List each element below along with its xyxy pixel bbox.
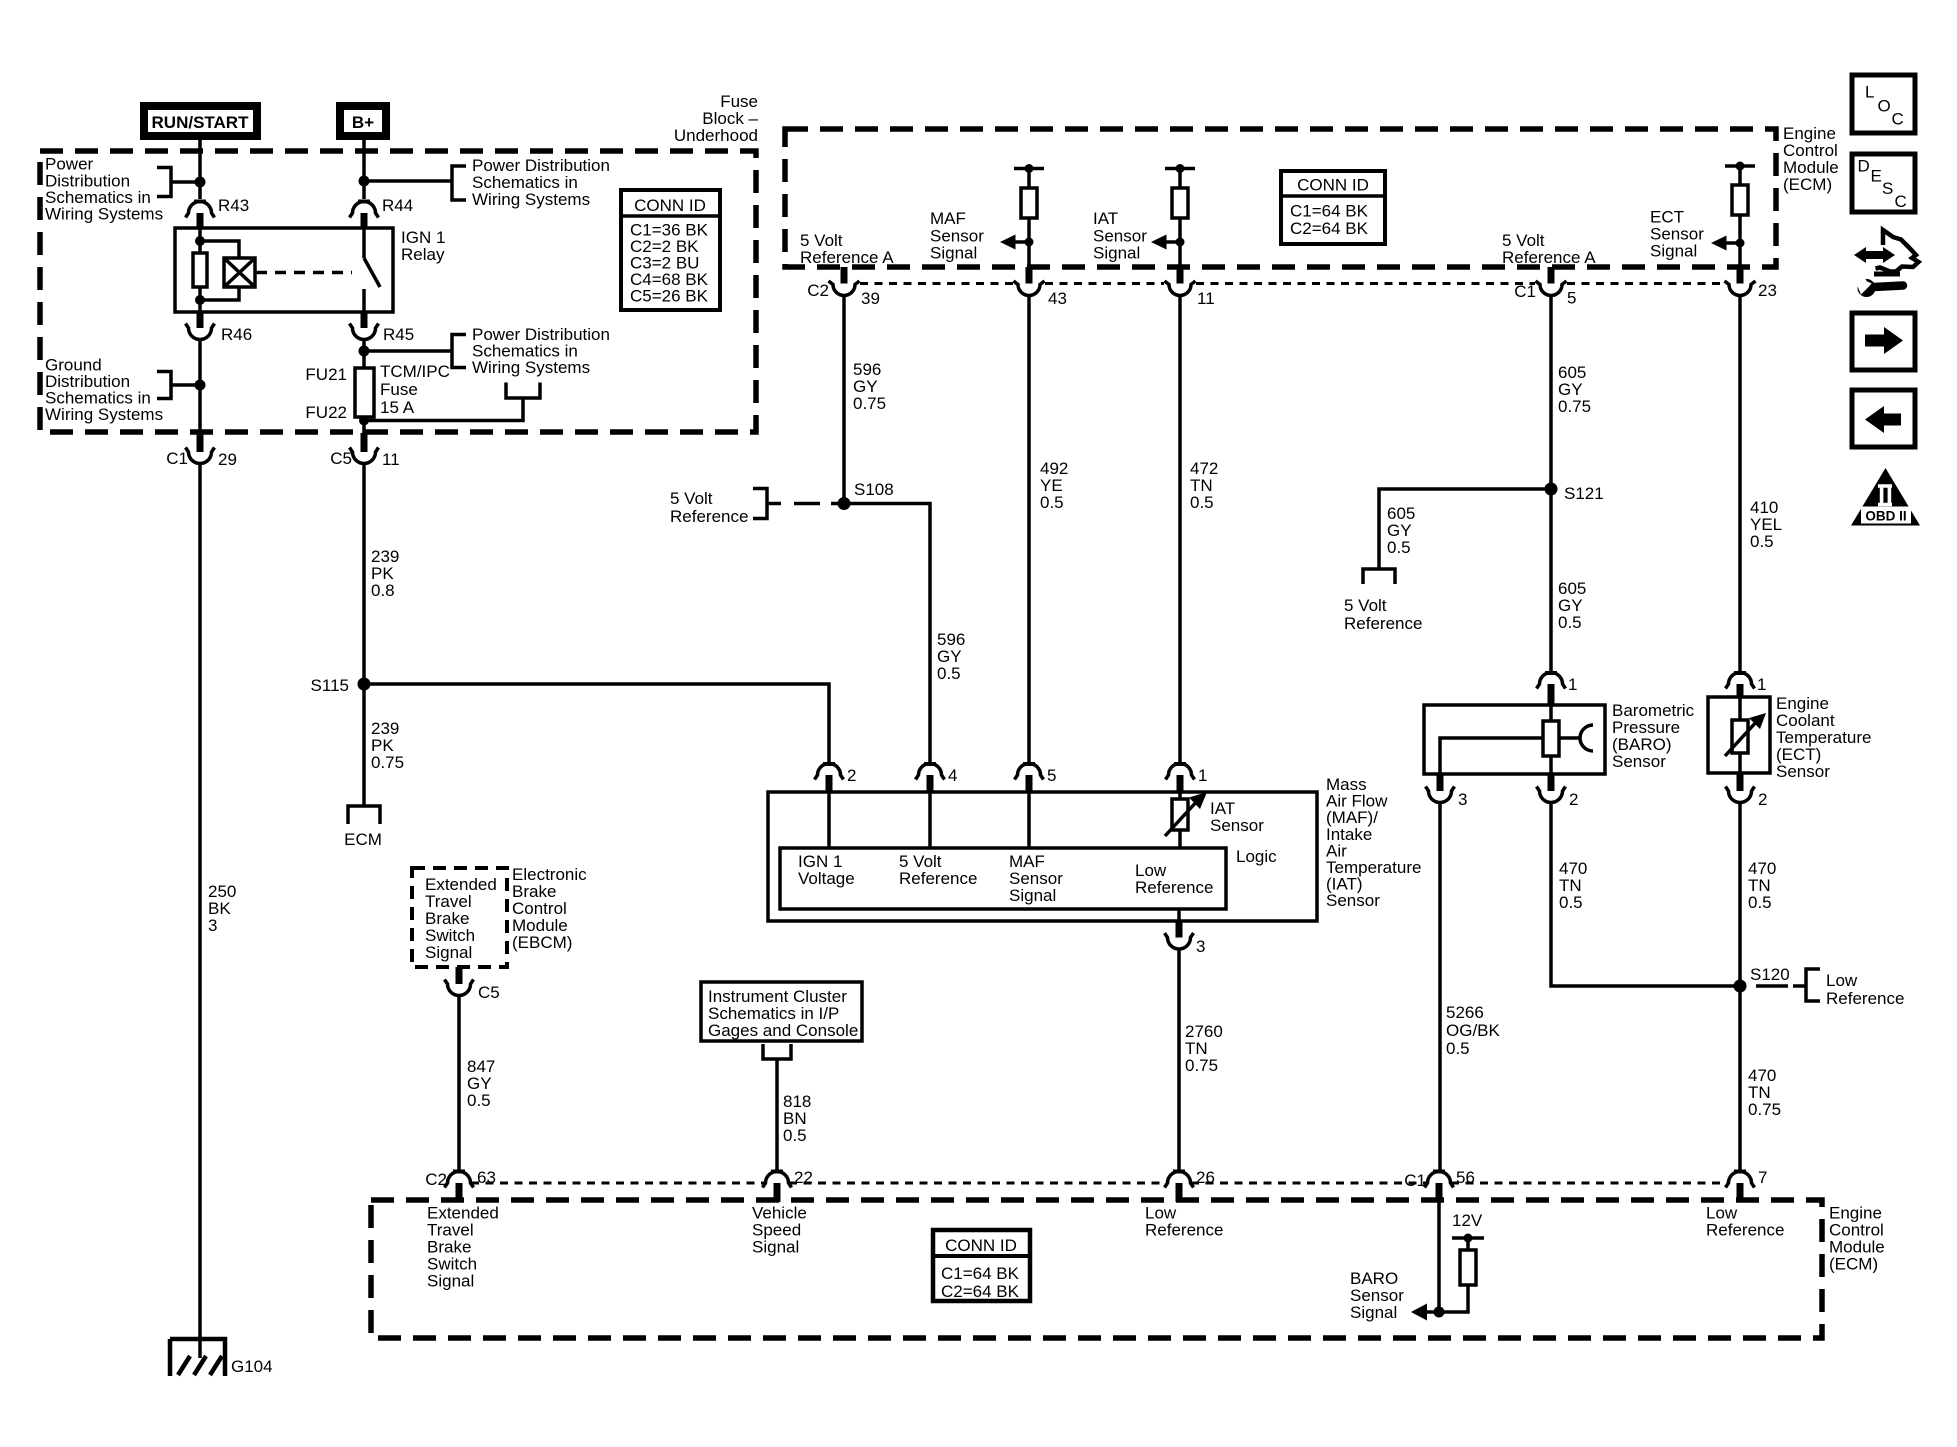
svg-text:Logic: Logic [1236, 847, 1277, 866]
svg-text:1: 1 [1198, 766, 1207, 785]
svg-text:Wiring Systems: Wiring Systems [472, 358, 590, 377]
off-page bracket: ground distribution [157, 372, 171, 399]
relay switch blade [364, 258, 380, 287]
SECTION: bottom ECM module [371, 865, 1885, 1338]
svg-text:0.5: 0.5 [783, 1126, 807, 1145]
ECT pull-up resistor [1732, 185, 1748, 215]
wire below fuse [362, 417, 366, 433]
svg-text:0.8: 0.8 [371, 581, 395, 600]
relay switch upper wire [362, 229, 366, 258]
svg-text:O: O [1878, 97, 1891, 116]
svg-text:(ECM): (ECM) [1829, 1255, 1878, 1274]
BARO sensor box [1424, 705, 1605, 774]
svg-text:R44: R44 [382, 196, 413, 215]
connector C5 11 [361, 433, 368, 452]
svg-text:C1=64 BK: C1=64 BK [941, 1264, 1020, 1283]
wire resistor to bottom node [198, 287, 202, 312]
terminal box RUN/START [144, 106, 257, 136]
svg-text:C5: C5 [478, 983, 500, 1002]
svg-text:63: 63 [477, 1168, 496, 1187]
off-page bracket: power distribution (B+) [452, 166, 466, 200]
svg-text:5 Volt: 5 Volt [1344, 596, 1387, 615]
pin 4 connector [924, 762, 936, 766]
node on ground wire [195, 380, 206, 391]
svg-text:2: 2 [847, 766, 856, 785]
ECT sensor signal driver: supply bar [1725, 164, 1755, 168]
wire R45 to fuse [362, 340, 366, 369]
svg-text:Sensor: Sensor [1612, 752, 1666, 771]
BARO internal resistor [1543, 721, 1559, 756]
logic inner box [780, 848, 1226, 909]
svg-text:Reference: Reference [899, 869, 977, 888]
svg-text:C1: C1 [1514, 282, 1536, 301]
wire resistor to node [1439, 1285, 1468, 1312]
icon OBD II triangle [1851, 468, 1920, 526]
svg-text:C2=64 BK: C2=64 BK [1290, 219, 1369, 238]
svg-text:S120: S120 [1750, 965, 1790, 984]
connector 23 [1737, 267, 1744, 284]
connector 22 [771, 1170, 783, 1174]
wire pin 4 to logic [928, 792, 932, 848]
BARO pull-up resistor [1460, 1250, 1476, 1285]
MAF signal arrow node [1025, 238, 1034, 247]
svg-text:Reference: Reference [1135, 878, 1213, 897]
svg-text:0.75: 0.75 [1185, 1056, 1218, 1075]
svg-text:CONN ID: CONN ID [634, 196, 706, 215]
pin 5 connector [1023, 762, 1035, 766]
wire 410 YEL connector 23 to ECT pin 1 [1738, 296, 1742, 673]
SECTION: top ECM module [670, 124, 1839, 762]
svg-text:Reference: Reference [1706, 1221, 1784, 1240]
off-page bracket: Low Reference (S120) [1793, 969, 1820, 1001]
BARO diaphragm symbol [1559, 736, 1581, 740]
fuse block dashed box [40, 151, 756, 432]
SECTION: right icon column [1851, 75, 1920, 526]
svg-text:3: 3 [1458, 790, 1467, 809]
svg-text:Low: Low [1826, 971, 1858, 990]
IAT sensor variable resistor [1172, 799, 1188, 830]
svg-text:C: C [1892, 110, 1904, 129]
relay coil box with X [224, 258, 255, 287]
svg-text:3: 3 [208, 916, 217, 935]
relay actuation dashed link [256, 271, 352, 275]
Instrument Cluster reference box [701, 982, 862, 1041]
svg-text:S115: S115 [311, 676, 349, 695]
wire 472 TN connector 11 to MAF pin 1 [1178, 296, 1182, 763]
wire to power-distribution bracket (fuse) [364, 349, 452, 353]
relay coil parallel branch wires [200, 241, 239, 258]
icon arrow right box [1852, 313, 1915, 370]
connector C2 63 [453, 1170, 465, 1174]
icon DESC box [1852, 154, 1915, 212]
node on RUN/START wire [195, 177, 206, 188]
wire 492 YE connector 43 to MAF pin 5 [1027, 296, 1031, 763]
wire S121 branch to 5 Volt Reference stub [1379, 489, 1551, 569]
svg-text:C2: C2 [807, 281, 829, 300]
svg-text:5266: 5266 [1446, 1003, 1484, 1022]
splice S115 [358, 678, 371, 691]
svg-text:0.5: 0.5 [1558, 613, 1582, 632]
wire RUN/START to relay [198, 140, 202, 199]
svg-text:Reference: Reference [1145, 1221, 1223, 1240]
ECT thermistor [1732, 720, 1748, 753]
svg-text:5: 5 [1047, 766, 1056, 785]
BARO signal arrow [1425, 1310, 1439, 1314]
svg-text:Fuse: Fuse [380, 380, 418, 399]
wire 847 GY EBCM to connector C2 63 [457, 996, 461, 1172]
wire 239 PK 0.8 C5-11 to S115 [362, 464, 366, 685]
ECT sensor box [1708, 697, 1770, 773]
SECTION: MAF/IAT sensor [768, 764, 1421, 1172]
svg-text:Sensor: Sensor [1326, 891, 1380, 910]
terminal box B+ [340, 106, 386, 136]
MAF/IAT sensor outer box [768, 792, 1317, 921]
wire 605 GY C1-5 to S121 [1549, 296, 1553, 673]
BARO pin 2 connector [1548, 774, 1555, 791]
wire S115 down to ECM [362, 684, 366, 806]
connector C1 56 [1433, 1170, 1445, 1174]
wire C1 56 down to BARO signal node [1437, 1201, 1441, 1312]
svg-text:39: 39 [861, 289, 880, 308]
svg-text:C: C [1895, 192, 1907, 211]
fuse FU21/FU22 TCM/IPC [355, 368, 374, 417]
BARO internal wires [1549, 705, 1553, 721]
svg-text:0.5: 0.5 [1559, 893, 1583, 912]
svg-text:Signal: Signal [1350, 1303, 1397, 1322]
pin 1 connector [1174, 762, 1186, 766]
wire 470 TN ECT pin 2 to S120 [1738, 803, 1742, 1172]
wire 2760 TN pin 3 to connector 26 [1177, 949, 1181, 1171]
ECT internal wires [1738, 697, 1742, 720]
svg-text:0.75: 0.75 [1748, 1100, 1781, 1119]
connector 26 [1173, 1170, 1185, 1174]
svg-text:MAF: MAF [930, 209, 966, 228]
svg-text:Wiring Systems: Wiring Systems [45, 405, 163, 424]
svg-text:2: 2 [1569, 790, 1578, 809]
svg-text:IAT: IAT [1093, 209, 1118, 228]
svg-text:0.75: 0.75 [1558, 397, 1591, 416]
wire resistor to connector 23 [1738, 215, 1742, 267]
svg-text:R46: R46 [221, 325, 252, 344]
off-page bracket: power distribution (fuse) [452, 335, 466, 368]
off-page bracket ECM [348, 806, 380, 824]
wire pin 1 to IAT element [1178, 792, 1182, 799]
svg-text:Sensor: Sensor [1776, 762, 1830, 781]
svg-text:TCM/IPC: TCM/IPC [380, 362, 450, 381]
svg-text:2: 2 [1758, 790, 1767, 809]
svg-text:Reference: Reference [670, 507, 748, 526]
svg-text:C1: C1 [1404, 1171, 1426, 1190]
IAT pull-up resistor [1172, 188, 1188, 218]
BARO pin 3 connector [1437, 774, 1444, 791]
wire IAT element to logic box [1178, 830, 1182, 848]
off-page bracket: 5 Volt Reference (S108) [753, 489, 781, 519]
svg-text:E: E [1871, 167, 1882, 186]
svg-text:Relay: Relay [401, 245, 445, 264]
svg-text:1: 1 [1757, 675, 1766, 694]
relay node bottom [195, 295, 205, 305]
wire B+ to relay [362, 140, 366, 199]
svg-text:B+: B+ [352, 113, 374, 132]
svg-text:D: D [1858, 157, 1870, 176]
wire 250 BK to ground G104 [198, 464, 202, 1359]
svg-text:4: 4 [948, 766, 957, 785]
svg-text:RUN/START: RUN/START [152, 113, 250, 132]
svg-text:ECM: ECM [344, 830, 382, 849]
wire S108 to MAF pin 4 [844, 504, 930, 763]
svg-text:Gages and Console: Gages and Console [708, 1021, 858, 1040]
MAF pull-up resistor [1021, 188, 1037, 218]
dashed wire to 5 Volt Reference bracket [794, 502, 844, 506]
svg-text:G104: G104 [231, 1357, 273, 1376]
svg-text:L: L [1865, 83, 1874, 102]
relay resistor [193, 253, 207, 287]
ECT pin 1 connector [1734, 671, 1746, 675]
ECT pin 2 connector [1737, 773, 1744, 791]
wire pin 5 to logic [1027, 792, 1031, 848]
svg-text:29: 29 [218, 450, 237, 469]
connector C5 (EBCM) [456, 967, 463, 984]
connector R45 [361, 312, 368, 328]
svg-text:7: 7 [1758, 1168, 1767, 1187]
IAT signal arrow [1164, 240, 1180, 244]
SECTION: BARO and ECT sensors [1344, 296, 1904, 1172]
connector R43 [194, 200, 206, 204]
svg-text:5: 5 [1567, 289, 1576, 308]
SECTION: left column wires [170, 464, 829, 1377]
svg-text:S108: S108 [854, 480, 894, 499]
svg-text:C1=64 BK: C1=64 BK [1290, 202, 1369, 221]
svg-text:11: 11 [1197, 289, 1215, 308]
svg-text:0.75: 0.75 [371, 753, 404, 772]
CONN ID table (bottom ECM) [933, 1230, 1030, 1301]
relay switch lower wire [362, 289, 366, 312]
connector R44 [358, 200, 370, 204]
ground G104 [170, 1339, 225, 1376]
svg-text:Underhood: Underhood [674, 126, 758, 145]
svg-text:C5=26 BK: C5=26 BK [630, 287, 709, 306]
MAF signal arrow [1013, 240, 1029, 244]
svg-text:43: 43 [1048, 289, 1067, 308]
node above fuse [359, 346, 370, 357]
CONN ID table (top ECM) [1281, 171, 1385, 244]
connector 43 [1026, 267, 1033, 284]
svg-text:(EBCM): (EBCM) [512, 933, 572, 952]
wire resistor to connector 43 [1027, 218, 1031, 267]
ECM dashed box (top) [785, 129, 1776, 267]
svg-text:11: 11 [382, 450, 400, 469]
splice S120 [1734, 980, 1747, 993]
svg-text:S: S [1882, 179, 1893, 198]
connector C1 5 [1548, 267, 1555, 284]
wire R46 to ground bracket node [198, 340, 202, 434]
svg-text:Signal: Signal [752, 1238, 799, 1257]
relay IGN 1 box [175, 228, 393, 312]
off-page stub bracket (5 Volt Reference) [1363, 569, 1395, 584]
SECTION: top-left fuse block [40, 92, 759, 469]
svg-text:R43: R43 [218, 196, 249, 215]
connector 7 [1734, 1170, 1746, 1174]
svg-text:FU21: FU21 [305, 365, 347, 384]
icon arrow left box [1852, 390, 1915, 447]
wire pin 2 to logic [827, 792, 831, 848]
connector 11 [1177, 267, 1184, 284]
svg-text:Signal: Signal [1650, 242, 1697, 261]
svg-text:Signal: Signal [1093, 244, 1140, 263]
wire S115 branch to MAF pin 2 [364, 684, 829, 762]
icon wrench/double-arrow [1854, 247, 1895, 263]
svg-text:C1: C1 [166, 449, 188, 468]
svg-text:0.5: 0.5 [467, 1091, 491, 1110]
svg-text:0.5: 0.5 [1040, 493, 1064, 512]
svg-text:Wiring Systems: Wiring Systems [472, 190, 590, 209]
svg-text:26: 26 [1196, 1168, 1215, 1187]
icon LOC box [1852, 75, 1915, 133]
svg-text:C2: C2 [425, 1170, 447, 1189]
svg-text:0.5: 0.5 [1446, 1039, 1470, 1058]
svg-text:Signal: Signal [930, 244, 977, 263]
ECT signal arrow [1724, 241, 1740, 245]
wire resistor to connector 11 [1178, 218, 1182, 267]
IAT signal arrow node [1176, 238, 1185, 247]
svg-text:0.75: 0.75 [853, 394, 886, 413]
svg-text:0.5: 0.5 [1750, 532, 1774, 551]
ECT signal arrow node [1736, 239, 1745, 248]
pin 3 connector [1176, 921, 1183, 938]
svg-text:23: 23 [1758, 281, 1777, 300]
svg-text:OBD II: OBD II [1865, 509, 1906, 524]
relay node top [195, 236, 205, 246]
off-page stub bracket below label [506, 383, 540, 399]
pin 2 connector [823, 762, 835, 766]
svg-text:Reference: Reference [1826, 989, 1904, 1008]
svg-text:CONN ID: CONN ID [945, 1236, 1017, 1255]
svg-text:Signal: Signal [1009, 886, 1056, 905]
connector line (dotted) bottom [471, 1182, 1728, 1185]
ECM dashed box (bottom) [371, 1200, 1822, 1338]
wire 470 TN BARO pin 2 to S120 [1551, 803, 1740, 987]
IAT sensor signal driver: supply bar [1165, 167, 1195, 171]
svg-text:C5: C5 [330, 449, 352, 468]
splice S108 [838, 497, 851, 510]
BARO pin 1 connector [1545, 671, 1557, 675]
svg-text:0.5: 0.5 [1190, 493, 1214, 512]
svg-text:15 A: 15 A [380, 398, 415, 417]
off-page stub bracket below instrument box [763, 1044, 791, 1059]
wire 5266 OG/BK pin 3 to connector C1 56 [1438, 803, 1442, 1172]
node on B+ wire [359, 176, 370, 187]
svg-text:0.5: 0.5 [1748, 893, 1772, 912]
EBCM dashed box [412, 868, 507, 967]
svg-text:Wiring Systems: Wiring Systems [45, 205, 163, 224]
relay coil branch wire [198, 229, 202, 253]
svg-text:Reference A: Reference A [800, 248, 894, 267]
svg-text:22: 22 [794, 1168, 813, 1187]
connector C2 39 [841, 267, 848, 284]
wire to ground-distribution bracket [171, 383, 200, 387]
splice S121 [1545, 483, 1558, 496]
svg-text:(ECM): (ECM) [1783, 175, 1832, 194]
wire logic to box bottom [1177, 909, 1181, 921]
wire to power-distribution bracket (left) [171, 180, 200, 184]
svg-text:R45: R45 [383, 325, 414, 344]
CONN ID table (fuse block) [621, 190, 720, 310]
MAF sensor signal driver: supply bar [1014, 167, 1044, 171]
svg-text:S121: S121 [1564, 484, 1604, 503]
svg-text:56: 56 [1456, 1168, 1475, 1187]
svg-text:Voltage: Voltage [798, 869, 855, 888]
dashed wire S120 to Low Reference bracket [1756, 984, 1788, 988]
wire to power-distribution bracket (right) [364, 179, 452, 183]
svg-text:CONN ID: CONN ID [1297, 176, 1369, 195]
svg-text:5 Volt: 5 Volt [670, 489, 713, 508]
node below fuse [359, 416, 369, 426]
svg-text:12V: 12V [1452, 1211, 1483, 1230]
svg-text:1: 1 [1568, 675, 1577, 694]
svg-text:Reference: Reference [1344, 614, 1422, 633]
wire 596 GY 0.75 connector 39 to S108 [842, 296, 846, 504]
off-page bracket: power distribution (left) [157, 168, 171, 197]
wire 818 BN to connector 22 [775, 1059, 779, 1171]
svg-text:0.5: 0.5 [937, 664, 961, 683]
svg-text:Sensor: Sensor [1210, 816, 1264, 835]
svg-text:OG/BK: OG/BK [1446, 1021, 1501, 1040]
connector R46 [197, 312, 204, 328]
svg-text:C2=64 BK: C2=64 BK [941, 1282, 1020, 1301]
svg-text:Signal: Signal [425, 943, 472, 962]
svg-text:0.5: 0.5 [1387, 538, 1411, 557]
svg-text:Reference A: Reference A [1502, 248, 1596, 267]
svg-text:FU22: FU22 [305, 403, 347, 422]
BARO signal node [1434, 1307, 1445, 1318]
svg-text:Signal: Signal [427, 1272, 474, 1291]
svg-text:3: 3 [1196, 937, 1205, 956]
connector C1 29 [197, 433, 204, 452]
connector line (dotted) top [860, 282, 1724, 285]
